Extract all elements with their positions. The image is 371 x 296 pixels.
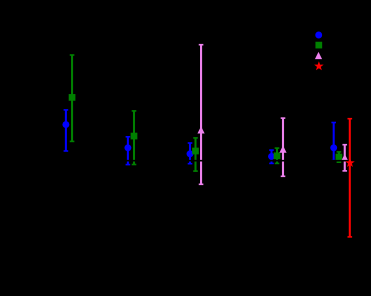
series2 group2 errorbar (green) (132, 111, 137, 165)
series3 group3 marker (violet triangle) (197, 126, 204, 133)
series2 group2 marker (green square) (131, 133, 138, 140)
series1 group5 marker (blue circle) (330, 144, 337, 151)
series1 group4 marker (blue circle) (268, 153, 275, 160)
series3 group4 errorbar (violet) (281, 118, 286, 176)
series3 group5 marker (violet triangle) (341, 154, 348, 161)
series2 group1 errorbar (green) (70, 55, 75, 141)
series2 group5 marker (green square) (336, 154, 343, 161)
series4 group5 errorbar (red) (348, 119, 353, 237)
series2 group3 marker (green square) (192, 148, 199, 155)
series4 group5 marker (red star) (345, 158, 355, 167)
legend marker green square (315, 42, 322, 49)
series1 group4 errorbar (blue) (269, 150, 274, 163)
series3 group4 marker (violet triangle) (279, 146, 286, 153)
series2 group1 marker (green square) (69, 94, 76, 101)
series1 group1 marker (blue circle) (62, 121, 69, 128)
legend marker red star (314, 61, 324, 70)
series3 group3 errorbar (violet) (199, 45, 204, 185)
reference axhline (black, invisible on background, notches the bars) (42, 160, 366, 162)
series3 group5 errorbar (violet) (342, 145, 347, 171)
series1 group1 errorbar (blue) (64, 110, 69, 151)
series1 group5 errorbar (blue) (331, 123, 336, 161)
series1 group3 marker (blue circle) (187, 150, 194, 157)
series2 group3 errorbar (green) (193, 138, 198, 171)
series1 group2 errorbar (blue) (126, 137, 131, 165)
series2 group5 errorbar (green) (337, 152, 342, 162)
series2 group4 errorbar (green) (275, 148, 280, 163)
series1 group2 marker (blue circle) (124, 144, 131, 151)
legend marker violet triangle (315, 52, 322, 59)
series2 group4 marker (green square) (274, 152, 281, 159)
series1 group3 errorbar (blue) (188, 143, 193, 164)
legend marker blue circle (315, 32, 322, 39)
